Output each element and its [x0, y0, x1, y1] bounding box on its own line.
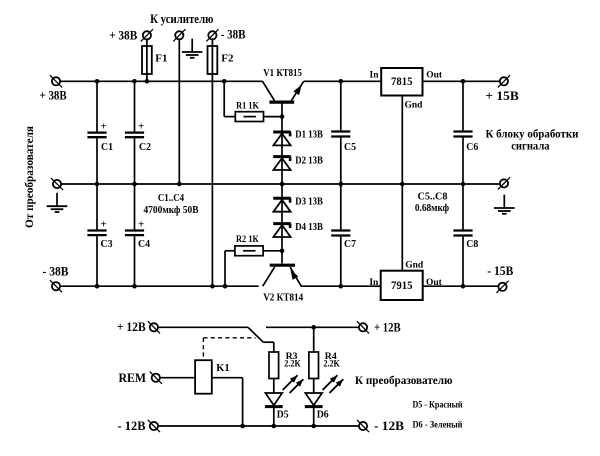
junction F1 / +38V rail: [145, 79, 150, 84]
ground symbol input: [47, 193, 68, 212]
capacitor C4: [125, 219, 150, 250]
svg-text:D4 13В: D4 13В: [295, 222, 323, 233]
resistor R1: [235, 112, 263, 122]
junction R4 / +12V rail: [311, 325, 316, 330]
terminal -15V: [496, 281, 508, 293]
svg-text:C5..C8: C5..C8: [418, 191, 448, 202]
svg-text:R1 1K: R1 1K: [236, 102, 259, 112]
terminal -38V input: [50, 280, 62, 292]
wire +12V right rail: [266, 326, 359, 328]
wire amplifier ground branch: [178, 39, 180, 184]
svg-text:C1..C4: C1..C4: [158, 193, 185, 204]
wire V1 base / zener chain upper: [281, 103, 283, 184]
label To signal processing block: [486, 129, 579, 153]
terminal +15V: [498, 75, 510, 87]
LED D5: [265, 375, 304, 406]
wire V2 emitter to 7915 In: [301, 285, 381, 287]
terminal +12V left: [148, 321, 160, 333]
zener diode D4: [273, 224, 291, 237]
svg-text:7915: 7915: [391, 280, 413, 292]
svg-text:In: In: [370, 71, 380, 81]
svg-text:От преобразователя: От преобразователя: [24, 126, 36, 228]
junction node V2 base / R2: [280, 249, 285, 254]
svg-text:К усилителю: К усилителю: [150, 12, 214, 26]
junction C2-C4 / ground rail: [132, 182, 137, 187]
svg-text:Gnd: Gnd: [405, 260, 424, 270]
junction node V1 base / R1: [280, 114, 285, 119]
terminal output ground: [498, 177, 510, 189]
terminal REM: [150, 372, 162, 384]
zener diode D2: [273, 157, 291, 170]
svg-text:+: +: [101, 121, 107, 133]
svg-text:сигнала: сигнала: [511, 140, 550, 152]
label C1..C4 value: [144, 193, 199, 216]
svg-text:Out: Out: [426, 278, 443, 288]
junction C6 / +15V rail: [461, 79, 466, 84]
svg-text:C8: C8: [466, 239, 478, 250]
svg-text:C4: C4: [138, 239, 150, 250]
svg-text:+ 12В: + 12В: [374, 319, 401, 334]
svg-text:2.2K: 2.2K: [324, 359, 341, 369]
ground symbol amp: [182, 39, 203, 58]
terminal amp +38V: [141, 29, 153, 41]
terminal -12V left: [148, 420, 160, 432]
regulator U2 7915: [381, 271, 423, 300]
svg-text:C5: C5: [344, 142, 356, 153]
capacitor C2: [125, 121, 151, 153]
relay actuation dashed link: [203, 338, 255, 360]
terminal -12V right: [357, 420, 369, 432]
junction C5-C7 / ground rail: [339, 182, 344, 187]
ground symbol output: [494, 195, 515, 214]
capacitor C6: [453, 132, 478, 154]
wire relay coil to -12V rail: [212, 378, 243, 426]
wire -38V rail left segment: [61, 285, 259, 287]
wire ground mid rail: [61, 183, 500, 185]
wire +38V rail left segment: [60, 80, 262, 82]
svg-text:+: +: [101, 219, 107, 231]
junction C4 / -38V rail: [132, 284, 137, 289]
zener diode D3: [273, 198, 291, 211]
wire R2 branch from -38V rail: [225, 251, 235, 286]
wire R1 to base node: [264, 116, 283, 118]
svg-text:R2 1К: R2 1К: [236, 235, 259, 245]
svg-text:C1: C1: [101, 142, 113, 153]
svg-text:K1: K1: [216, 363, 229, 374]
junction D6 / -12V rail: [311, 424, 316, 429]
svg-text:Gnd: Gnd: [405, 100, 424, 110]
zener diode D1: [273, 132, 291, 145]
svg-text:C7: C7: [344, 239, 356, 250]
svg-text:+: +: [138, 219, 144, 231]
svg-text:Out: Out: [426, 71, 443, 81]
wire 7815 Gnd / 7915 Gnd vertical: [401, 96, 403, 271]
resistor R2: [235, 246, 263, 256]
wire F2 branch down to -38V rail: [211, 39, 213, 286]
relay K1 coil: [195, 360, 212, 394]
capacitor C3: [87, 219, 112, 250]
wire REM to relay coil: [160, 377, 195, 379]
wire C2/C4 vertical: [134, 81, 136, 286]
junction regulators Gnd / ground rail: [400, 182, 405, 187]
wire R2 to base node: [264, 250, 283, 252]
wire -12V rail: [158, 425, 359, 427]
svg-text:D2 13В: D2 13В: [295, 155, 323, 166]
svg-text:D1 13В: D1 13В: [295, 130, 323, 141]
label R3 2.2K: [284, 352, 300, 370]
svg-text:V2 КТ814: V2 КТ814: [263, 292, 304, 303]
svg-text:4700мкф 50В: 4700мкф 50В: [144, 205, 199, 216]
svg-text:2.2К: 2.2К: [284, 359, 300, 369]
svg-text:C2: C2: [139, 142, 151, 153]
terminal amp -38V: [206, 29, 218, 41]
label C5..C8 value: [415, 191, 449, 214]
wire switch contact to R3: [263, 342, 274, 352]
svg-text:+ 15В: + 15В: [485, 88, 519, 103]
junction C7 / -38V rail: [339, 284, 344, 289]
capacitor C5: [331, 132, 356, 154]
svg-text:+ 38В: + 38В: [40, 87, 67, 102]
svg-text:D6 - Зеленый: D6 - Зеленый: [413, 419, 463, 430]
terminal ground input: [51, 178, 63, 190]
junction C8 / -15V rail: [461, 284, 466, 289]
wire zener chain lower / V2 base: [281, 184, 283, 263]
svg-text:V1 КТ815: V1 КТ815: [263, 68, 302, 79]
junction F2 / -38V rail: [210, 284, 215, 289]
svg-text:- 12В: - 12В: [374, 418, 404, 433]
svg-text:+ 12В: + 12В: [117, 319, 146, 334]
junction R1 branch / +38V rail: [222, 79, 227, 84]
fuse F2: [208, 46, 218, 74]
relay switch arm: [248, 327, 263, 342]
terminal amp ground: [173, 29, 185, 41]
svg-text:REM: REM: [119, 370, 147, 385]
fuse F1: [142, 46, 152, 74]
svg-text:F2: F2: [221, 52, 234, 64]
terminal +12V right: [357, 321, 369, 333]
junction C1 / +38V rail: [95, 79, 100, 84]
wire V1 emitter to 7815 In: [304, 80, 382, 82]
svg-text:D5 - Красный: D5 - Красный: [413, 399, 463, 410]
svg-text:In: In: [369, 278, 379, 288]
junction C2 / +38V rail: [132, 79, 137, 84]
wire +12V left to switch: [158, 326, 248, 328]
capacitor C1: [87, 121, 113, 153]
junction relay coil / -12V rail: [240, 424, 245, 429]
transistor V2 KT814: [263, 265, 302, 286]
capacitor C8: [453, 231, 478, 251]
regulator U1 7815: [381, 68, 422, 96]
resistor R4: [309, 352, 319, 379]
svg-text:- 15В: - 15В: [487, 263, 513, 278]
svg-text:- 38В: - 38В: [221, 26, 246, 41]
wire 7815 Out to +15V terminal: [423, 80, 501, 82]
transistor V1 KT815: [263, 81, 304, 102]
wire R4 to LED D6: [313, 379, 315, 427]
junction C5 / +38V rail: [339, 79, 344, 84]
svg-text:- 12В: - 12В: [118, 418, 146, 433]
svg-text:К преобразователю: К преобразователю: [355, 375, 453, 387]
svg-text:- 38В: - 38В: [43, 263, 69, 278]
junction D5 / -12V rail: [272, 424, 277, 429]
svg-text:D6: D6: [317, 409, 329, 420]
svg-text:C6: C6: [466, 142, 478, 153]
wire R4 branch from +12V rail: [313, 327, 315, 352]
junction C6-C8 / ground rail: [461, 182, 466, 187]
terminal +38V input: [50, 75, 62, 87]
svg-text:К блоку обработки: К блоку обработки: [486, 129, 579, 141]
svg-text:C3: C3: [101, 239, 113, 250]
wire C6/C8 vertical: [462, 81, 464, 286]
svg-text:F1: F1: [155, 52, 167, 64]
wire 7915 Out to -15V terminal: [423, 285, 499, 287]
wire C5/C7 vertical: [340, 81, 342, 286]
junction C3 / -38V rail: [95, 284, 100, 289]
svg-text:D3 13В: D3 13В: [295, 197, 323, 208]
junction C1-C3 / ground rail: [95, 182, 100, 187]
label R4 2.2K: [324, 352, 341, 370]
wire R3 to LED D5: [273, 379, 275, 427]
wire F1 branch: [146, 39, 148, 81]
svg-text:0.68мкф: 0.68мкф: [415, 203, 449, 214]
wire R1 branch from +38V rail: [224, 81, 235, 116]
junction amp ground / ground rail: [177, 182, 182, 187]
svg-text:+: +: [138, 121, 144, 133]
junction R2 branch / -38V rail: [223, 284, 228, 289]
svg-text:+ 38В: + 38В: [109, 28, 137, 43]
wire C1/C3 vertical: [96, 81, 98, 286]
junction zener chain / ground rail: [280, 182, 285, 187]
resistor R3: [269, 352, 279, 379]
svg-text:7815: 7815: [391, 76, 413, 88]
svg-text:D5: D5: [277, 409, 289, 420]
LED D6: [305, 375, 344, 406]
capacitor C7: [331, 231, 356, 251]
